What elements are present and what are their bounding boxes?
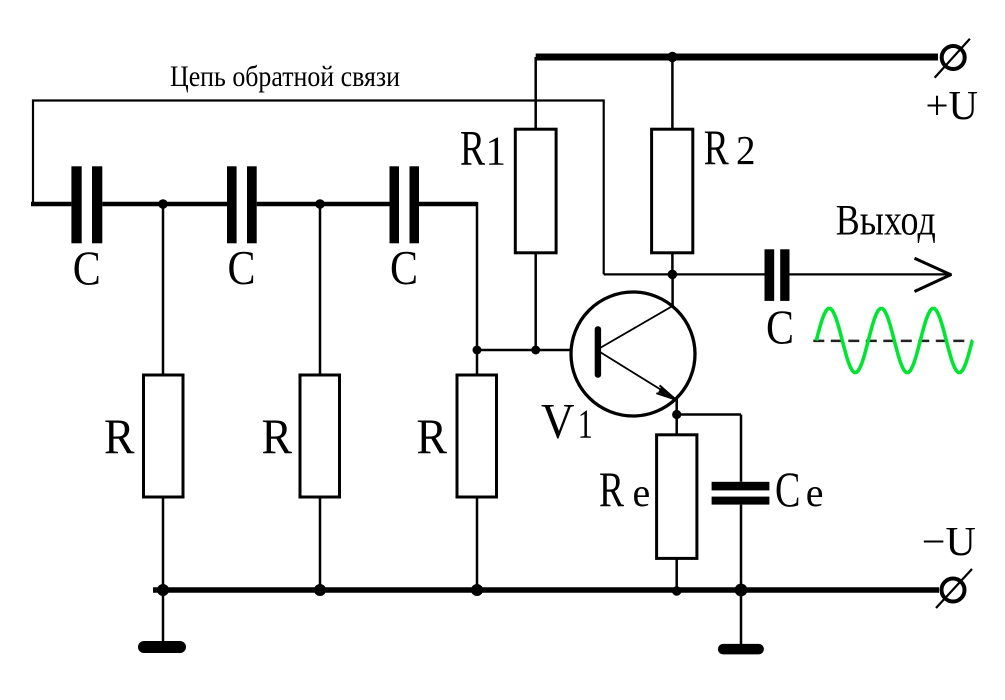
svg-text:Выход: Выход (836, 197, 936, 245)
svg-text:R: R (262, 408, 293, 464)
svg-text:C: C (766, 300, 794, 355)
svg-text:e: e (633, 470, 651, 515)
svg-text:R: R (704, 119, 729, 175)
svg-text:V: V (541, 393, 575, 449)
svg-text:R: R (417, 408, 448, 464)
svg-text:2: 2 (736, 127, 756, 173)
svg-text:R: R (460, 120, 485, 176)
svg-text:+U: +U (926, 82, 979, 128)
svg-text:1: 1 (578, 401, 593, 447)
svg-text:R: R (104, 408, 135, 464)
svg-text:Цепь обратной связи: Цепь обратной связи (170, 61, 400, 93)
svg-text:C: C (390, 240, 418, 295)
svg-text:e: e (806, 470, 824, 515)
svg-text:C: C (228, 240, 256, 295)
svg-text:1: 1 (486, 128, 507, 174)
svg-text:C: C (775, 461, 800, 517)
svg-text:C: C (73, 241, 101, 296)
svg-text:−U: −U (922, 518, 976, 564)
svg-text:R: R (599, 461, 624, 517)
